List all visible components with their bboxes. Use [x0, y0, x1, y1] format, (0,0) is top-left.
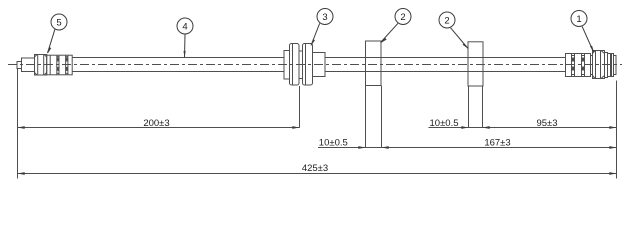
balloon 4 — [177, 18, 193, 58]
dimension line 10/95 row — [429, 127, 617, 129]
clip 2 — [468, 42, 483, 86]
left fitting tip — [17, 62, 22, 69]
hose segment right — [325, 58, 565, 72]
svg-text:425±3: 425±3 — [302, 163, 328, 174]
grommet flange 2 — [303, 44, 313, 86]
svg-text:167±3: 167±3 — [484, 138, 510, 149]
balloon 5 — [48, 14, 68, 54]
left fitting threaded body — [22, 58, 35, 72]
svg-text:200±3: 200±3 — [143, 118, 169, 129]
right fitting hex nut — [593, 51, 605, 79]
dimension line 10/167 row — [318, 147, 617, 149]
svg-text:2: 2 — [400, 12, 405, 23]
right fitting washer — [605, 53, 608, 78]
centerline — [8, 64, 622, 66]
grommet flange 1 — [290, 44, 300, 86]
balloon 2 second — [439, 12, 468, 49]
svg-text:1: 1 — [576, 14, 581, 25]
balloon 1 — [571, 11, 594, 53]
clip 1 — [366, 41, 382, 86]
clip 1 extension legs — [366, 86, 382, 148]
dimension line 425±3 — [17, 173, 616, 175]
svg-text:2: 2 — [444, 15, 449, 26]
clip 2 extension legs — [469, 86, 483, 128]
extension line right end — [616, 81, 618, 179]
svg-text:5: 5 — [56, 17, 61, 28]
svg-text:10±0.5: 10±0.5 — [319, 138, 348, 149]
dimension arrows — [18, 126, 617, 175]
right fitting grooved end — [608, 54, 617, 77]
svg-text:10±0.5: 10±0.5 — [430, 118, 459, 129]
svg-text:4: 4 — [182, 21, 187, 32]
extension line grommet — [299, 86, 301, 128]
grommet groove — [299, 51, 303, 79]
grommet right sleeve — [313, 53, 326, 77]
hose segment left — [72, 58, 284, 72]
right fitting collar — [591, 56, 593, 75]
left fitting crimped ferrule — [47, 55, 72, 75]
svg-text:3: 3 — [322, 12, 327, 23]
balloon 2 first — [381, 9, 412, 43]
right fitting crimped ferrule — [566, 54, 591, 77]
balloon 3 — [311, 9, 333, 46]
left fitting hex nut — [35, 55, 47, 76]
dimension line 200±3 — [17, 127, 300, 129]
grommet left sleeve — [284, 51, 290, 80]
extension line left end — [17, 69, 19, 179]
svg-text:95±3: 95±3 — [536, 118, 557, 129]
